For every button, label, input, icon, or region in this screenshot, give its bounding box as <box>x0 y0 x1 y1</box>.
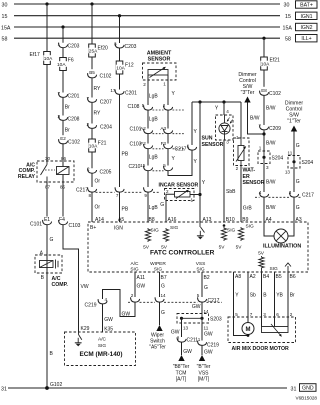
wire relay85 to F4 <box>62 182 64 217</box>
node BAT+ <box>296 1 318 8</box>
svg-text:"A5"Ter: "A5"Ter <box>149 345 166 351</box>
wire C219-1 down GW <box>201 346 203 355</box>
wire C211-3 down GW <box>181 342 183 355</box>
wire B4 B <box>261 272 263 327</box>
svg-text:S203: S203 <box>210 317 222 323</box>
node GND <box>300 384 317 392</box>
svg-text:M: M <box>246 327 251 333</box>
wire Ef21 drop <box>263 38 265 57</box>
svg-text:AMBIENT: AMBIENT <box>147 51 172 57</box>
motor potentiometer <box>262 327 289 333</box>
svg-text:B/W: B/W <box>266 106 276 112</box>
svg-text:SENSOR: SENSOR <box>148 57 171 63</box>
svg-text:3: 3 <box>266 165 269 170</box>
connector C217 pin 7 <box>115 187 124 192</box>
a/c compressor symbol <box>40 261 54 268</box>
svg-text:SIG: SIG <box>130 267 139 273</box>
svg-text:GW: GW <box>192 304 201 310</box>
wire C108-5 to C101-A2 <box>147 110 149 128</box>
motor M symbol <box>242 323 254 335</box>
wire B5 to C207 <box>91 78 93 97</box>
svg-text:6: 6 <box>276 312 279 317</box>
svg-text:VW: VW <box>81 284 89 290</box>
svg-text:F4: F4 <box>59 217 65 223</box>
svg-text:B5: B5 <box>276 274 282 280</box>
svg-text:15A: 15A <box>283 25 293 31</box>
svg-text:RY: RY <box>94 111 102 117</box>
svg-text:G: G <box>161 310 165 316</box>
offpage wiper switch arrow <box>156 325 162 331</box>
wire C210-5 stub to rail drop <box>168 164 192 176</box>
wire rail right to water <box>240 102 242 138</box>
svg-text:A11: A11 <box>137 275 146 281</box>
svg-text:B2: B2 <box>204 275 210 281</box>
wire water2 to B9 <box>240 166 242 223</box>
svg-text:SIG: SIG <box>227 228 236 234</box>
fuse F12 10A <box>116 61 123 74</box>
wire E1 down G <box>46 225 48 255</box>
svg-text:A/C: A/C <box>98 337 107 343</box>
svg-text:SIG: SIG <box>270 266 279 272</box>
svg-text:Ef17: Ef17 <box>30 52 41 58</box>
wire C217-1 down <box>191 150 193 164</box>
offpage VSS arrow <box>199 355 205 361</box>
svg-text:C103: C103 <box>69 223 81 229</box>
fuse Ef21 10A <box>261 57 268 70</box>
junction rail-sun <box>222 100 225 103</box>
svg-text:31: 31 <box>1 386 7 392</box>
wire C201 to C217 pin7 <box>119 95 121 187</box>
junction bus30-Ef20 <box>90 2 93 5</box>
svg-text:5V: 5V <box>219 245 226 251</box>
svg-text:PB: PB <box>122 152 129 158</box>
FATC internal pullup B10 <box>223 224 226 227</box>
dashed connector row C217 left <box>96 191 115 193</box>
wire bus 30 <box>14 3 280 5</box>
svg-text:ECM (MR-140): ECM (MR-140) <box>80 351 123 358</box>
wire C217-8 to A14 <box>91 192 93 222</box>
wire S203 to C219-1 GW <box>201 323 203 341</box>
motor AIR MIX DOOR MOTOR box <box>228 317 296 343</box>
FATC internal switch A13 <box>199 222 201 227</box>
ambient leads <box>147 75 149 80</box>
splice S204 left <box>258 151 270 164</box>
svg-text:Br: Br <box>65 105 70 111</box>
svg-text:B4: B4 <box>263 274 269 280</box>
svg-text:WAT-: WAT- <box>243 168 256 174</box>
wire C203 to F12 <box>119 48 121 61</box>
svg-text:S204: S204 <box>302 160 314 166</box>
wire C101-A2 to C103-F2 <box>147 134 149 144</box>
svg-text:LgB: LgB <box>149 205 159 211</box>
svg-text:7: 7 <box>250 312 253 317</box>
wire C217-5 down GW <box>201 302 203 313</box>
svg-text:B6: B6 <box>290 274 296 280</box>
svg-text:1: 1 <box>198 337 201 342</box>
svg-text:GW: GW <box>122 312 131 318</box>
svg-text:Or: Or <box>95 205 101 211</box>
ECM internal ground <box>78 332 80 335</box>
svg-text:C217: C217 <box>76 188 88 194</box>
svg-text:11: 11 <box>288 150 293 155</box>
relay A/C COMP. RELAY box <box>37 161 74 182</box>
svg-text:PB: PB <box>122 207 129 213</box>
svg-text:A/C: A/C <box>131 261 140 267</box>
svg-text:SIG: SIG <box>196 267 205 273</box>
svg-text:"1"Ter: "1"Ter <box>287 119 301 125</box>
svg-text:9: 9 <box>144 193 147 198</box>
svg-text:"B"Ter: "B"Ter <box>197 364 211 370</box>
wire Ef20 drop <box>91 4 93 44</box>
svg-text:C102: C102 <box>68 140 80 146</box>
splice S203 <box>177 314 209 324</box>
wire bus 15A <box>14 26 280 28</box>
svg-text:13: 13 <box>183 326 189 331</box>
svg-text:2: 2 <box>131 293 134 298</box>
svg-text:7: 7 <box>116 193 119 198</box>
lamp ILLUMINATION <box>264 222 274 236</box>
wire ambient1 Y <box>167 80 169 105</box>
svg-text:IGN1: IGN1 <box>300 14 312 20</box>
svg-text:YB: YB <box>276 293 283 299</box>
wire Ef17 drop <box>46 4 48 52</box>
svg-text:[M/T]: [M/T] <box>198 377 210 383</box>
wire A2 Sb <box>247 272 249 323</box>
svg-text:5V: 5V <box>236 245 243 251</box>
wire C201 to C208 <box>62 98 64 116</box>
svg-text:SIG: SIG <box>151 228 160 234</box>
svg-text:A2: A2 <box>250 274 256 280</box>
svg-text:[A/T]: [A/T] <box>176 377 187 383</box>
wire bus 31 <box>8 387 287 389</box>
svg-text:C204: C204 <box>100 125 112 131</box>
svg-text:GND: GND <box>302 386 314 392</box>
svg-text:C208: C208 <box>68 116 80 122</box>
FATC internal dim arrow B6 <box>287 266 289 272</box>
sensor WATER SENSOR box <box>234 138 250 166</box>
svg-text:2: 2 <box>290 312 293 317</box>
svg-text:"3"Ter: "3"Ter <box>241 90 255 96</box>
wire Ef20 to C102 B5 <box>91 57 93 72</box>
wire A11 GW <box>134 272 136 297</box>
svg-text:RY: RY <box>94 86 102 92</box>
wire C217-3 to A3 <box>293 197 295 222</box>
svg-text:4: 4 <box>226 109 229 114</box>
wire A8 Y <box>233 272 235 317</box>
svg-text:C210: C210 <box>129 164 141 170</box>
svg-text:G: G <box>50 237 54 243</box>
ecu ECM (MR-140) box <box>65 332 136 366</box>
controller FATC CONTROLLER box <box>88 222 308 272</box>
svg-text:30: 30 <box>284 2 290 8</box>
svg-text:GW: GW <box>137 284 146 290</box>
wire C103-F2 to C210-15 <box>147 149 149 166</box>
svg-text:3: 3 <box>226 140 229 145</box>
svg-text:SENSOR: SENSOR <box>202 142 224 148</box>
svg-text:IGN2: IGN2 <box>300 25 312 31</box>
svg-text:2: 2 <box>236 166 239 171</box>
connector C102 pin E8 <box>259 87 270 93</box>
svg-text:30: 30 <box>45 156 51 161</box>
svg-text:C102: C102 <box>269 91 281 97</box>
svg-text:11: 11 <box>204 326 209 331</box>
svg-text:10A: 10A <box>44 56 53 62</box>
svg-text:C201: C201 <box>125 90 137 96</box>
wire ambient2 LgB <box>147 80 149 105</box>
wire C210-15 to C217-9 <box>147 171 149 187</box>
svg-text:2: 2 <box>143 82 146 87</box>
node IGN1 <box>296 12 318 19</box>
svg-text:IGN: IGN <box>114 226 123 232</box>
wire F6 to C201 <box>62 71 64 93</box>
svg-text:ILL+: ILL+ <box>301 36 311 42</box>
svg-text:5V: 5V <box>143 245 150 251</box>
wire E8 to C209 <box>263 96 265 125</box>
svg-text:E1: E1 <box>44 217 50 223</box>
svg-text:SENSOR: SENSOR <box>243 180 265 186</box>
svg-text:B/W: B/W <box>250 116 260 122</box>
svg-text:C203: C203 <box>68 44 80 50</box>
svg-text:G: G <box>161 284 165 290</box>
svg-text:C101: C101 <box>30 221 42 227</box>
svg-text:E8: E8 <box>261 88 267 93</box>
wire Ef21 to C102 E8 <box>263 70 265 90</box>
wire C204 to F21 <box>91 129 93 139</box>
svg-text:E2: E2 <box>60 136 66 141</box>
wire C208 to C102 <box>62 121 64 138</box>
wire B7 G <box>159 272 161 297</box>
wire through compressor <box>46 255 48 273</box>
svg-text:BAT+: BAT+ <box>300 3 313 9</box>
wire B6 Br <box>287 272 289 327</box>
svg-text:3: 3 <box>263 312 266 317</box>
svg-text:V6B15028: V6B15028 <box>296 395 318 400</box>
svg-text:INCAR SENSOR: INCAR SENSOR <box>159 182 199 188</box>
wire C101-A3 to C103-F3 <box>167 134 169 144</box>
svg-text:SUN: SUN <box>202 136 213 142</box>
svg-text:8: 8 <box>89 193 92 198</box>
svg-text:13: 13 <box>285 169 291 174</box>
svg-text:G: G <box>160 202 164 208</box>
svg-text:RELAY: RELAY <box>18 174 36 180</box>
wire C207 to C204 <box>91 103 93 124</box>
svg-text:15A: 15A <box>1 25 11 31</box>
wire coil to 85 <box>62 175 64 183</box>
svg-text:5V: 5V <box>258 251 265 257</box>
svg-text:87: 87 <box>45 185 51 190</box>
svg-text:GW: GW <box>204 350 213 356</box>
svg-text:C201: C201 <box>68 93 80 99</box>
svg-text:Or: Or <box>95 179 101 185</box>
wire C203 to F6 <box>62 48 64 58</box>
wire rail left drop to C217-1 <box>191 102 193 145</box>
wire C217-14 down G <box>159 302 161 325</box>
wire C209 down <box>263 130 265 151</box>
svg-text:C207: C207 <box>100 100 112 106</box>
svg-text:30: 30 <box>2 2 8 8</box>
svg-text:ER: ER <box>243 174 250 180</box>
svg-text:B/W: B/W <box>266 180 276 186</box>
svg-text:Ef21: Ef21 <box>270 58 281 64</box>
svg-text:WIPER: WIPER <box>150 261 166 267</box>
svg-text:C211: C211 <box>187 338 199 344</box>
wire B2 G <box>201 272 203 297</box>
offpage TCM arrow <box>178 355 184 361</box>
svg-text:K29: K29 <box>81 326 90 332</box>
wire bus 15 <box>14 15 280 17</box>
svg-text:VSS: VSS <box>198 370 209 376</box>
relay coil <box>57 167 70 175</box>
svg-text:B+: B+ <box>90 225 96 231</box>
svg-text:Sb: Sb <box>250 293 256 299</box>
wire S204 to C217-4 <box>263 164 265 193</box>
wire F12 to C201 17 <box>119 74 121 90</box>
svg-text:58: 58 <box>285 37 291 43</box>
svg-text:86: 86 <box>61 156 67 161</box>
wire incar1 to A13 wire <box>190 194 200 196</box>
fuse Ef20 25A <box>89 44 96 57</box>
dashed connector row C217 right <box>255 196 260 198</box>
svg-text:C205: C205 <box>100 169 112 175</box>
svg-text:G: G <box>296 205 300 211</box>
svg-text:1: 1 <box>236 135 239 140</box>
svg-text:LgB: LgB <box>149 155 159 161</box>
svg-text:B7: B7 <box>161 275 167 281</box>
svg-text:1: 1 <box>191 198 194 203</box>
svg-text:15: 15 <box>2 14 8 20</box>
node ILL+ <box>296 35 318 42</box>
svg-text:GW: GW <box>183 349 192 355</box>
svg-text:A8: A8 <box>235 274 241 280</box>
svg-text:ILLUMINATION: ILLUMINATION <box>263 244 301 250</box>
svg-text:VSS: VSS <box>196 261 206 267</box>
incar thermistor arrow <box>176 190 189 199</box>
wire to C203 pin1 <box>62 27 64 43</box>
svg-text:14: 14 <box>161 293 167 298</box>
connector C217 pin 9 <box>144 187 153 192</box>
wire S203 to C211 GW <box>181 318 183 337</box>
pot wiper arrow <box>271 324 282 337</box>
wire compressor to G102 <box>46 273 48 388</box>
connector C102 pin E2 <box>58 135 69 141</box>
svg-text:COMP.: COMP. <box>52 282 69 288</box>
wire A13 drop <box>199 102 201 222</box>
svg-text:Br: Br <box>290 293 295 299</box>
water thermistor arrow <box>236 147 246 162</box>
wire Ef17 to relay 30 <box>46 65 48 162</box>
svg-text:G: G <box>296 179 300 185</box>
junction bus15A-C203 <box>61 25 64 28</box>
sun photodiode <box>219 123 230 134</box>
wire relay87 to C101 <box>46 182 48 217</box>
svg-text:SIG: SIG <box>154 267 163 273</box>
svg-text:5: 5 <box>235 312 238 317</box>
sun light arrows <box>227 118 230 122</box>
svg-text:SIG: SIG <box>170 225 179 231</box>
wire dimmer3 B/W <box>248 103 265 135</box>
svg-text:C219: C219 <box>207 343 219 349</box>
svg-text:15: 15 <box>140 163 146 168</box>
svg-text:LgB: LgB <box>149 117 159 123</box>
wire bus 58 <box>14 37 280 39</box>
svg-text:31: 31 <box>291 386 297 392</box>
svg-text:C203: C203 <box>125 44 137 50</box>
sensor SUN SENSOR box <box>216 115 234 140</box>
svg-text:Br: Br <box>65 128 70 134</box>
wire to C203 pin3 <box>119 16 121 43</box>
svg-text:FATC CONTROLLER: FATC CONTROLLER <box>150 250 215 257</box>
wire C219-4 to K35 <box>102 304 104 332</box>
svg-text:B5: B5 <box>89 70 95 75</box>
junction bus30-Ef17 <box>45 2 48 5</box>
wire C108-2 to C101-A3 <box>167 110 169 128</box>
connector C102 pin B5 <box>87 69 98 75</box>
svg-text:10A: 10A <box>89 143 98 149</box>
svg-text:SbB: SbB <box>226 189 236 195</box>
wire C217-7 to A5 <box>119 192 121 222</box>
svg-text:F21: F21 <box>98 141 107 147</box>
svg-text:LgB: LgB <box>149 94 159 100</box>
wire C102 to relay coil <box>62 143 64 166</box>
svg-text:B/W: B/W <box>266 141 276 147</box>
svg-text:TCM: TCM <box>176 370 187 376</box>
svg-text:G: G <box>204 285 208 291</box>
fuse F21 10A <box>89 139 96 152</box>
wire C217-9 to B8 <box>147 192 149 222</box>
svg-text:C217: C217 <box>175 147 187 153</box>
svg-text:C108: C108 <box>128 104 140 110</box>
wire incar2 to A16 <box>166 194 175 222</box>
svg-text:GrB: GrB <box>243 206 253 212</box>
node IGN2 <box>296 23 318 30</box>
wire sun drop <box>223 102 225 115</box>
fuse Ef17 10A <box>44 52 51 65</box>
svg-text:SIG: SIG <box>98 343 107 349</box>
svg-text:2: 2 <box>166 189 169 194</box>
svg-text:C217: C217 <box>302 193 314 199</box>
svg-text:C217: C217 <box>208 298 220 304</box>
svg-text:SIG: SIG <box>246 224 255 230</box>
relay link dashed <box>45 169 55 171</box>
wire sun3 to B10 <box>223 140 225 222</box>
svg-text:15: 15 <box>285 14 291 20</box>
svg-text:1: 1 <box>163 81 166 86</box>
ambient thermistor arrow <box>150 67 166 78</box>
relay switch contact <box>46 161 48 165</box>
svg-text:C102: C102 <box>100 74 112 80</box>
wire B5 YB <box>274 272 276 327</box>
svg-text:F12: F12 <box>125 63 134 69</box>
junction G102 <box>45 386 49 390</box>
wire dimmer1 G <box>293 132 295 156</box>
svg-text:B/W: B/W <box>266 205 276 211</box>
svg-text:58: 58 <box>2 37 8 43</box>
wire C217-4 to A4 <box>263 197 265 222</box>
junction rail-A13 <box>198 100 201 103</box>
wire C103-F3 to C210-5 <box>167 149 169 166</box>
junction dimmer3 join <box>262 132 265 135</box>
svg-text:G102: G102 <box>50 382 62 388</box>
junction bus15-C203p3 <box>118 14 121 17</box>
svg-text:GW: GW <box>104 317 113 323</box>
svg-text:Ef20: Ef20 <box>98 46 109 52</box>
svg-text:AIR MIX DOOR MOTOR: AIR MIX DOOR MOTOR <box>232 346 290 352</box>
splice S204 right <box>288 156 300 169</box>
svg-text:"B8"Ter: "B8"Ter <box>173 364 190 370</box>
wire C205 to C217 pin8 <box>91 173 93 187</box>
svg-text:5V: 5V <box>161 245 168 251</box>
svg-text:F6: F6 <box>68 58 74 64</box>
